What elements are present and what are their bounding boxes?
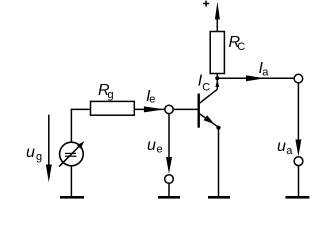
- svg-text:g: g: [36, 151, 42, 163]
- svg-text:C: C: [237, 41, 245, 53]
- svg-text:u: u: [277, 138, 286, 155]
- svg-text:u: u: [147, 137, 156, 154]
- svg-text:e: e: [149, 94, 155, 106]
- svg-text:e: e: [157, 144, 163, 156]
- svg-text:g: g: [108, 89, 114, 101]
- svg-text:a: a: [286, 145, 293, 157]
- svg-text:C: C: [202, 82, 210, 94]
- svg-text:a: a: [262, 67, 269, 79]
- svg-text:u: u: [26, 144, 35, 161]
